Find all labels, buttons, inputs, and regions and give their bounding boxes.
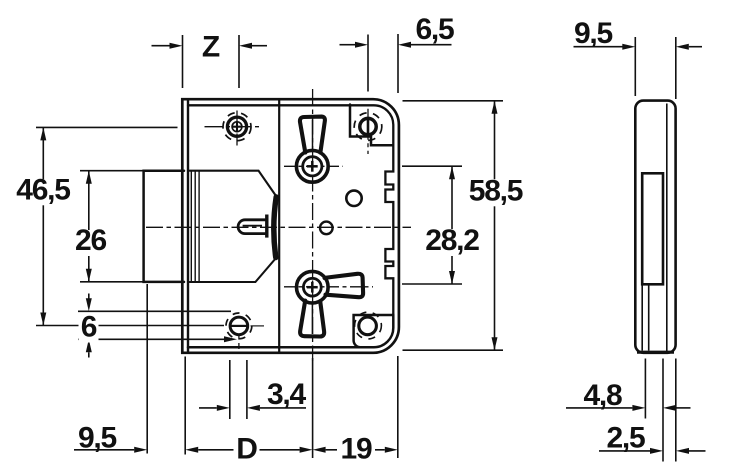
- key guide trapezoid top edge: [190, 171, 277, 197]
- key guide arc (thick): [274, 197, 276, 258]
- dim 6,5 (top): [340, 44, 356, 46]
- dim 2,5 (side view): [675, 359, 677, 462]
- side view bottom edge thick: [637, 351, 674, 354]
- top wing hub inner: [303, 157, 322, 176]
- bottom wing hub cross: [307, 286, 318, 289]
- svg-text:2,5: 2,5: [606, 421, 645, 454]
- top wing hub cross: [307, 165, 318, 168]
- screw hole bottom-left: body circle: [230, 317, 248, 335]
- barrel flange lines inside case: [190, 171, 192, 282]
- screw bottom-left slot: [231, 325, 246, 327]
- dim 9,5 (side view top): [574, 46, 623, 48]
- top wing paddle: [300, 117, 325, 153]
- dim 4,8 (side view): [644, 359, 646, 419]
- top wing hub outer: [296, 150, 328, 182]
- svg-text:6,5: 6,5: [415, 13, 454, 46]
- screw hole top-right: body circle: [360, 118, 376, 134]
- dim Z (top left): [152, 45, 171, 47]
- side view bolt slot: [642, 173, 663, 284]
- bottom wing hub inner: [303, 278, 321, 296]
- svg-text:46,5: 46,5: [16, 173, 70, 206]
- dim 9,5 (bottom left, barrel): [146, 284, 148, 454]
- side view lines below slot: [641, 284, 643, 350]
- key bit inner line: [243, 225, 262, 227]
- horizontal centerline: [146, 226, 411, 228]
- bottom wing hub outer: [297, 271, 329, 303]
- dim 3,4 (bottom, key bit): [229, 360, 231, 419]
- screw top-right dashed head circle: [354, 113, 382, 141]
- dim 6 (left, arrows outside): [78, 310, 231, 312]
- key bit capsule: [238, 220, 265, 234]
- svg-text:4,8: 4,8: [583, 379, 622, 412]
- dim 58,5 (right of front view): [403, 100, 504, 102]
- bottom wing down paddle inner line: [311, 303, 313, 334]
- svg-text:3,4: 3,4: [267, 378, 307, 411]
- bottom wing right paddle: [325, 274, 364, 297]
- screw top-left cross recess: [232, 122, 242, 132]
- svg-text:28,2: 28,2: [425, 224, 479, 257]
- side view inner face line: [666, 104, 668, 352]
- key bit vertical bar: [265, 215, 268, 238]
- screw hole top-left: body circle: [227, 117, 246, 136]
- small hole upper right of center: [346, 191, 361, 206]
- inner plate fold line: top, rounded corner, right edge with latch notches: [188, 105, 393, 315]
- screw bottom-left centerline below: [238, 334, 240, 352]
- svg-text:6: 6: [81, 311, 97, 344]
- dim 26 (left): [80, 170, 144, 172]
- inner plate fold line: bottom edge and bottom-right corner: [188, 315, 393, 348]
- screw top-right centerline: [367, 109, 369, 154]
- dim D (bottom): [184, 357, 186, 455]
- hub horizontal centerline bottom: [284, 286, 373, 288]
- screw top-right slot: [367, 120, 370, 134]
- case/plate divider line: [278, 100, 280, 352]
- screw bottom-right dashed head circle: [355, 312, 382, 339]
- svg-text:D: D: [236, 432, 257, 465]
- screw top-left centerlines: [205, 126, 262, 128]
- hub horizontal centerline top: [284, 165, 343, 167]
- screw top-left dashed head circle: [223, 113, 251, 141]
- top wing paddle inner line: [312, 120, 314, 152]
- bottom-right screw recess outline: [354, 315, 393, 347]
- dim 19 (bottom): [313, 447, 326, 453]
- cylinder barrel protruding left: [144, 171, 184, 282]
- bottom wing down paddle: [300, 301, 324, 337]
- svg-text:9,5: 9,5: [574, 17, 613, 50]
- screw bottom-left dashed head circle: [226, 313, 252, 339]
- svg-text:58,5: 58,5: [469, 174, 523, 207]
- top-right screw recess outline: [350, 105, 393, 146]
- svg-text:19: 19: [341, 432, 372, 465]
- lock front view: outer back-plate outline: [182, 99, 399, 353]
- svg-text:26: 26: [75, 224, 106, 257]
- small hole at center: [320, 222, 333, 235]
- svg-text:Z: Z: [202, 30, 220, 63]
- side view body outline: [635, 101, 675, 353]
- lock case inner left edge (double line): [187, 100, 189, 352]
- svg-text:9,5: 9,5: [78, 421, 117, 454]
- dim 46,5 (left): [36, 126, 178, 128]
- dim 28,2 (right inner): [402, 165, 462, 167]
- vertical centerline through wings: [312, 89, 314, 361]
- key guide trapezoid bottom edge: [190, 258, 277, 282]
- screw hole bottom-right: body ring: [359, 317, 377, 335]
